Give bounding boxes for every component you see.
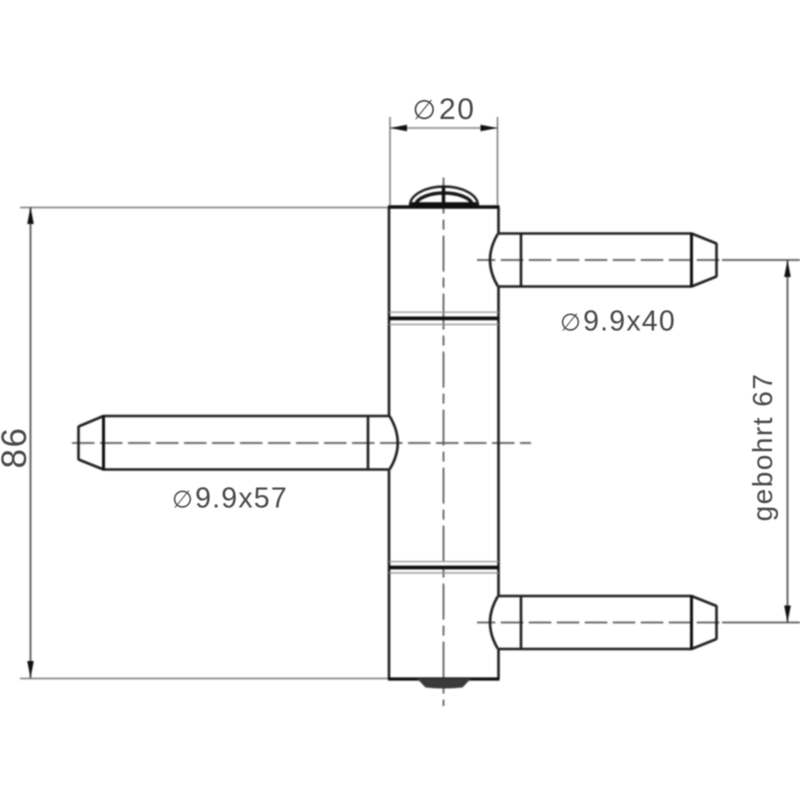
svg-text:∅9.9x57: ∅9.9x57 [172, 483, 288, 515]
svg-text:∅9.9x40: ∅9.9x40 [560, 306, 676, 338]
svg-text:gebohrt 67: gebohrt 67 [747, 373, 778, 522]
svg-text:86: 86 [0, 427, 34, 469]
svg-text:∅20: ∅20 [413, 93, 476, 126]
